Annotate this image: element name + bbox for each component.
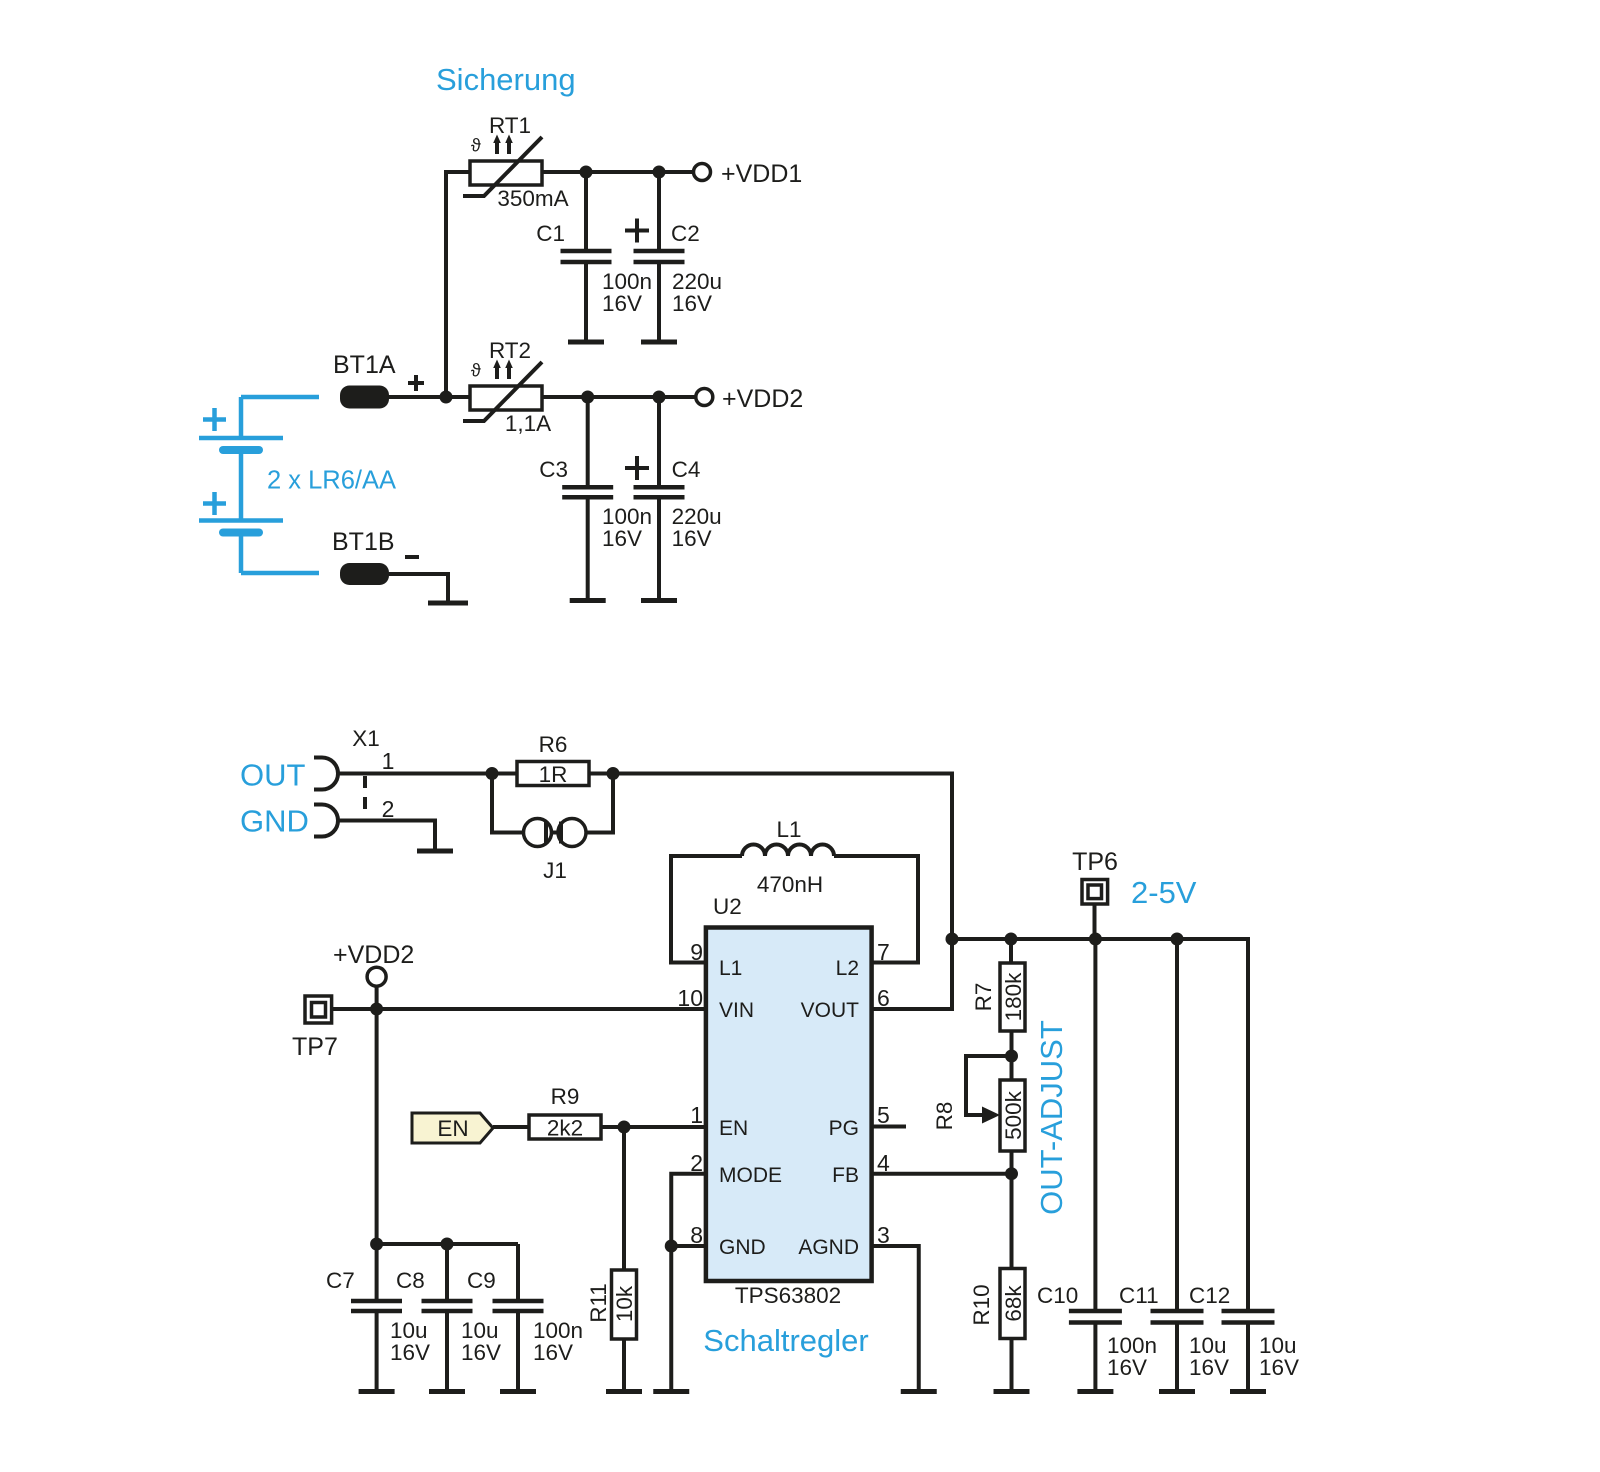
node VOUT rail corner xyxy=(946,933,959,946)
wire output rail xyxy=(952,939,1248,1309)
ground xyxy=(1230,1389,1266,1394)
ground xyxy=(568,340,604,345)
svg-text:16V: 16V xyxy=(1259,1355,1299,1380)
node R7 tap xyxy=(1005,933,1018,946)
svg-text:470nH: 470nH xyxy=(757,872,823,897)
capacitor C4 polarized xyxy=(625,397,722,600)
svg-text:+VDD2: +VDD2 xyxy=(333,941,414,969)
terminal +VDD1 xyxy=(694,160,803,188)
node C7 tap xyxy=(370,1238,383,1251)
node VDD2 distribution xyxy=(370,1003,383,1016)
capacitor C7 xyxy=(326,1244,430,1391)
svg-text:C1: C1 xyxy=(536,221,565,246)
svg-text:10k: 10k xyxy=(612,1285,637,1322)
node TP6/C10 tap xyxy=(1089,933,1102,946)
wire node up to RT1 xyxy=(446,172,470,397)
jumper J1 xyxy=(492,774,613,884)
node FB/R8/R10 xyxy=(1005,1167,1018,1180)
ground xyxy=(641,340,677,345)
capacitor C8 xyxy=(396,1244,501,1391)
node C8 tap xyxy=(441,1238,454,1251)
svg-text:C8: C8 xyxy=(396,1268,425,1293)
svg-text:Schaltregler: Schaltregler xyxy=(703,1323,868,1358)
node R6 left xyxy=(486,767,499,780)
node C2 tap xyxy=(653,166,666,179)
svg-text:C7: C7 xyxy=(326,1268,355,1293)
capacitor C11 xyxy=(1119,939,1229,1391)
svg-text:16V: 16V xyxy=(390,1340,430,1365)
wire C7-C8-C9 top rail xyxy=(377,1242,518,1246)
ground xyxy=(417,849,453,854)
svg-text:AGND: AGND xyxy=(798,1236,859,1259)
svg-text:GND: GND xyxy=(719,1236,766,1259)
svg-text:R7: R7 xyxy=(971,983,996,1012)
test point TP6 xyxy=(1072,848,1118,939)
ground xyxy=(994,1389,1030,1394)
wire R8 to node xyxy=(1010,1151,1014,1269)
node C11 tap xyxy=(1171,933,1184,946)
svg-text:1: 1 xyxy=(690,1102,703,1128)
battery terminal BT1B xyxy=(332,528,419,585)
capacitor C12 xyxy=(1189,1283,1299,1391)
potentiometer R8 xyxy=(932,1056,1026,1151)
wire BT1A to node xyxy=(389,395,470,399)
ground xyxy=(429,1389,465,1394)
svg-text:OUT-ADJUST: OUT-ADJUST xyxy=(1034,1020,1069,1215)
svg-text:+VDD2: +VDD2 xyxy=(722,385,803,413)
svg-text:J1: J1 xyxy=(543,858,567,883)
svg-text:VOUT: VOUT xyxy=(801,999,860,1022)
wire TP7 to VIN xyxy=(332,1007,706,1011)
wire X1 pin2 to ground xyxy=(338,821,435,850)
connector X1 xyxy=(314,726,394,837)
node battery plus xyxy=(440,391,453,404)
capacitor C1 xyxy=(536,172,652,342)
svg-text:16V: 16V xyxy=(533,1340,573,1365)
wire RT1 to +VDD1 xyxy=(542,170,694,174)
node R6 right xyxy=(607,767,620,780)
wire PG stub xyxy=(872,1125,906,1129)
node R7/R8 wiper xyxy=(1005,1050,1018,1063)
svg-text:L1: L1 xyxy=(719,957,742,980)
svg-text:U2: U2 xyxy=(713,894,742,919)
ground xyxy=(1077,1389,1113,1394)
wire BT1B to ground xyxy=(389,574,448,601)
svg-text:C3: C3 xyxy=(539,457,568,482)
ground xyxy=(653,1389,689,1394)
capacitor C10 xyxy=(1037,939,1157,1391)
wire X1 pin1 to R6 xyxy=(338,772,517,776)
IC U2 TPS63802 xyxy=(706,894,872,1308)
svg-text:R10: R10 xyxy=(969,1284,994,1325)
ground xyxy=(428,601,468,606)
svg-text:ϑ: ϑ xyxy=(471,136,481,156)
node C1 tap xyxy=(580,166,593,179)
wire R9 to EN pin xyxy=(601,1125,706,1129)
svg-text:7: 7 xyxy=(877,939,890,965)
svg-text:FB: FB xyxy=(832,1164,859,1187)
node C3 tap xyxy=(581,391,594,404)
svg-text:TPS63802: TPS63802 xyxy=(735,1283,841,1308)
svg-text:16V: 16V xyxy=(672,291,712,316)
svg-text:ϑ: ϑ xyxy=(471,361,481,381)
resistor R6 xyxy=(517,732,589,787)
ground xyxy=(606,1389,642,1394)
svg-text:2k2: 2k2 xyxy=(547,1116,583,1141)
svg-text:C11: C11 xyxy=(1119,1283,1159,1308)
ground xyxy=(359,1389,395,1394)
svg-text:1: 1 xyxy=(382,748,395,774)
wire R6 to VOUT branch xyxy=(589,774,952,1010)
svg-text:C10: C10 xyxy=(1037,1283,1078,1308)
svg-text:2-5V: 2-5V xyxy=(1131,875,1197,910)
svg-text:1R: 1R xyxy=(539,762,568,787)
svg-text:PG: PG xyxy=(829,1117,859,1140)
svg-text:TP7: TP7 xyxy=(292,1033,338,1061)
svg-text:L2: L2 xyxy=(836,957,859,980)
svg-text:BT1B: BT1B xyxy=(332,528,395,556)
svg-text:Sicherung: Sicherung xyxy=(436,62,576,97)
svg-text:16V: 16V xyxy=(602,526,642,551)
svg-text:5: 5 xyxy=(877,1102,890,1128)
svg-text:GND: GND xyxy=(240,804,309,839)
svg-text:VIN: VIN xyxy=(719,999,754,1022)
wire +VDD2 down to C7 node xyxy=(375,986,379,1244)
svg-text:2: 2 xyxy=(382,796,395,822)
wire RT2 to +VDD2 xyxy=(542,395,696,399)
svg-text:16V: 16V xyxy=(602,291,642,316)
svg-text:RT1: RT1 xyxy=(489,113,531,138)
svg-text:C9: C9 xyxy=(467,1268,496,1293)
svg-text:TP6: TP6 xyxy=(1072,848,1118,876)
terminal +VDD2 circle xyxy=(333,941,414,986)
battery BT1 2xLR6/AA xyxy=(199,397,396,573)
test point TP7 xyxy=(292,996,338,1061)
svg-text:68k: 68k xyxy=(1001,1285,1026,1322)
node C4 tap xyxy=(653,391,666,404)
svg-text:500k: 500k xyxy=(1001,1090,1026,1140)
svg-text:MODE: MODE xyxy=(719,1164,782,1187)
ground xyxy=(641,598,677,603)
svg-text:R9: R9 xyxy=(551,1084,580,1109)
svg-text:R6: R6 xyxy=(539,732,568,757)
wire AGND to ground xyxy=(872,1246,919,1391)
ground xyxy=(570,598,606,603)
capacitor C9 xyxy=(467,1244,583,1391)
signal flag EN xyxy=(412,1113,493,1143)
svg-text:6: 6 xyxy=(877,985,890,1011)
battery terminal BT1A xyxy=(333,351,424,409)
svg-text:R11: R11 xyxy=(586,1283,611,1323)
resistor R10 xyxy=(969,1269,1026,1392)
svg-text:C4: C4 xyxy=(672,457,701,482)
inductor L1 470nH xyxy=(671,817,918,963)
svg-text:16V: 16V xyxy=(1189,1355,1229,1380)
resistor R11 xyxy=(586,1127,637,1391)
svg-text:9: 9 xyxy=(690,939,703,965)
node MODE/GND xyxy=(665,1240,678,1253)
svg-text:16V: 16V xyxy=(1107,1355,1147,1380)
resistor R9 xyxy=(529,1084,601,1141)
ground xyxy=(1159,1389,1195,1394)
wire EN flag to R9 xyxy=(493,1125,529,1129)
svg-text:+VDD1: +VDD1 xyxy=(721,160,802,188)
svg-text:BT1A: BT1A xyxy=(333,351,396,379)
svg-text:X1: X1 xyxy=(352,726,380,751)
svg-text:C2: C2 xyxy=(671,221,700,246)
svg-text:16V: 16V xyxy=(461,1340,501,1365)
capacitor C2 polarized xyxy=(625,172,722,342)
terminal +VDD2 xyxy=(696,385,803,413)
capacitor C3 xyxy=(539,397,652,600)
svg-text:180k: 180k xyxy=(1001,972,1026,1022)
svg-text:EN: EN xyxy=(719,1117,748,1140)
svg-text:2 x LR6/AA: 2 x LR6/AA xyxy=(267,467,396,495)
wire MODE to GND pin xyxy=(671,1174,706,1391)
svg-text:L1: L1 xyxy=(776,817,801,842)
svg-text:1,1A: 1,1A xyxy=(505,411,551,436)
svg-text:R8: R8 xyxy=(932,1102,957,1131)
svg-text:OUT: OUT xyxy=(240,758,306,793)
ground xyxy=(901,1389,937,1394)
resistor R7 xyxy=(971,939,1026,1080)
svg-text:C12: C12 xyxy=(1189,1283,1230,1308)
svg-text:350mA: 350mA xyxy=(497,186,568,211)
svg-text:16V: 16V xyxy=(672,526,712,551)
ground xyxy=(500,1389,536,1394)
wire FB to divider xyxy=(872,1172,1012,1176)
thermistor fuse RT2 xyxy=(463,338,551,436)
svg-text:RT2: RT2 xyxy=(489,338,531,363)
svg-text:EN: EN xyxy=(437,1116,468,1141)
thermistor fuse RT1 xyxy=(463,113,569,211)
node EN/R11 xyxy=(618,1121,631,1134)
